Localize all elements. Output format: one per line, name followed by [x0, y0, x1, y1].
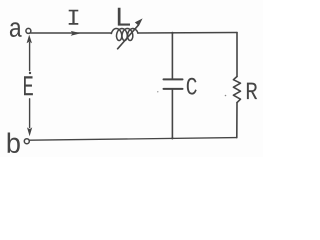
- label C: [187, 78, 197, 95]
- inductor L coil: [111, 29, 138, 41]
- terminal b: [24, 139, 29, 144]
- capacitor C plates: [164, 78, 183, 80]
- label b: [8, 133, 20, 153]
- label I: [69, 10, 79, 25]
- terminal a: [26, 28, 31, 33]
- arrowhead down (E bottom, toward b): [27, 127, 32, 136]
- wire top (a to L): [31, 32, 112, 34]
- junction dot bottom of C branch: [171, 137, 173, 139]
- current I arrowhead on top wire: [71, 31, 81, 36]
- label E: [24, 76, 33, 95]
- dot above E (phasor): [29, 72, 31, 74]
- wire right branch upper: [236, 33, 238, 77]
- scan speck left of C plates: [157, 91, 158, 92]
- source E dashed line lower: [29, 99, 31, 128]
- wire below capacitor: [171, 90, 173, 139]
- label L: [118, 8, 130, 26]
- label a: [10, 22, 22, 37]
- junction dot top of C branch: [171, 32, 173, 34]
- variable-inductor arrow shaft: [118, 25, 139, 49]
- resistor R zigzag: [233, 77, 240, 103]
- arrowhead up (E top, toward a): [27, 35, 32, 44]
- wire right branch lower: [236, 103, 238, 138]
- wire bottom: [30, 138, 237, 141]
- node junction top of C: [171, 33, 173, 79]
- scan speck left of R: [225, 95, 227, 97]
- wire top (L to right corner): [138, 32, 237, 35]
- label R: [247, 83, 257, 99]
- variable arrowhead (tip upper right): [135, 18, 143, 26]
- source E dashed line upper: [29, 43, 31, 71]
